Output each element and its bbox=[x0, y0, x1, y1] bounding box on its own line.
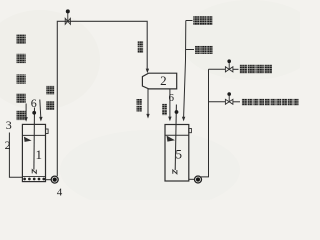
svg-text:6: 6 bbox=[31, 96, 37, 110]
pipe: vessel 5 outlet to right pump bbox=[189, 178, 195, 180]
label: suo bbox=[259, 99, 264, 106]
label: shui (water) bbox=[138, 47, 143, 53]
label 2 bbox=[5, 138, 11, 152]
agitator blade of vessel 5 bbox=[167, 136, 175, 142]
valve on recovery branch bbox=[225, 62, 233, 72]
label: nong bbox=[253, 99, 258, 106]
label: chu (out) bbox=[136, 99, 141, 105]
agitator shaft of vessel 1 bbox=[33, 108, 36, 170]
pipe: dilute sulfuric acid / condensate line into vessel 5 bbox=[184, 21, 186, 118]
label 2 (heat exchanger) bbox=[160, 73, 167, 88]
label 6 (agitator of vessel 5) bbox=[168, 92, 174, 104]
pipe: product riser from right pump bbox=[200, 69, 209, 177]
label: xu bbox=[248, 99, 253, 106]
pipe: branch to recovered ammonium sulfate bbox=[209, 68, 226, 70]
label: shui (water) bbox=[136, 106, 141, 112]
label: an (ammonium) bbox=[16, 74, 25, 83]
vessel 5 (crystallizer) bbox=[165, 125, 189, 182]
valve on top line bbox=[65, 13, 70, 24]
pipe: branch to downstream process bbox=[209, 101, 226, 103]
pump (right) bbox=[195, 176, 202, 183]
pipe: ammonia water feed bbox=[40, 100, 41, 118]
label: rong (dissolve) bbox=[16, 94, 25, 103]
label: liu (sulfur) bbox=[16, 35, 25, 44]
pipe: riser from pump 4 over the top to heat exchanger bbox=[57, 21, 147, 176]
label: hou bbox=[242, 99, 247, 106]
label: jing bbox=[271, 99, 276, 106]
label: an (ammonium) bbox=[264, 65, 272, 74]
pipe: left drain line bbox=[9, 133, 22, 178]
label: gan bbox=[276, 99, 281, 106]
label: yi bbox=[294, 99, 299, 106]
label: jie bbox=[265, 99, 270, 106]
label: ye (liquid) bbox=[16, 111, 25, 120]
label: xi (dilute) bbox=[193, 16, 199, 25]
label: suan (acid) bbox=[206, 16, 212, 25]
svg-text:2: 2 bbox=[160, 73, 167, 88]
agitator blade of vessel 1 bbox=[24, 137, 32, 142]
label: an (ammonia) bbox=[46, 86, 54, 95]
label 1 bbox=[36, 147, 43, 162]
pipe: ammonium sulfate feed bbox=[25, 104, 27, 118]
svg-text:1: 1 bbox=[36, 147, 43, 162]
label: gong bbox=[288, 99, 293, 106]
label: leng (cold) bbox=[195, 46, 201, 54]
svg-text:4: 4 bbox=[57, 186, 63, 198]
label 4 bbox=[57, 186, 63, 198]
valve on downstream branch bbox=[225, 95, 233, 104]
vessel 1 (reaction tank) bbox=[22, 124, 45, 181]
nozzle tab on vessel 5 bbox=[189, 129, 192, 133]
label: ning (condense) bbox=[201, 46, 207, 54]
svg-text:5: 5 bbox=[175, 147, 182, 162]
label: liu (sulfur) bbox=[256, 65, 264, 74]
label: jin (in) bbox=[138, 41, 143, 47]
heat exchanger 2 bbox=[142, 73, 176, 89]
label: shou (collect) bbox=[248, 65, 256, 74]
pipe: heat exchanger to crystallizer 5 bbox=[169, 89, 171, 117]
label 3 bbox=[6, 118, 12, 132]
label: suan (acid) bbox=[16, 54, 25, 63]
label: ye (liquid) bbox=[207, 46, 213, 54]
label: liu (sulfur) bbox=[200, 16, 206, 25]
pipe: vessel 1 outlet to pump 4 bbox=[46, 179, 52, 181]
svg-text:2: 2 bbox=[5, 138, 11, 152]
label: hui (return) bbox=[240, 65, 248, 74]
label: shui (water) bbox=[46, 101, 54, 110]
label: chu (out) bbox=[162, 104, 167, 109]
label 5 bbox=[175, 147, 182, 162]
svg-text:3: 3 bbox=[6, 118, 12, 132]
nozzle tab on vessel 1 bbox=[46, 129, 49, 134]
paper mottling bbox=[0, 0, 300, 200]
svg-text:6: 6 bbox=[168, 92, 174, 104]
label: zao bbox=[282, 99, 287, 106]
sparger dots in vessel 1 bbox=[23, 178, 26, 181]
label 6 (agitator of vessel 1) bbox=[31, 96, 37, 110]
label: liao (material) bbox=[162, 110, 167, 115]
pump 4 bbox=[51, 176, 58, 183]
pipe: heat exchanger water outlet bbox=[147, 89, 149, 115]
agitator shaft of vessel 5 bbox=[175, 105, 176, 171]
